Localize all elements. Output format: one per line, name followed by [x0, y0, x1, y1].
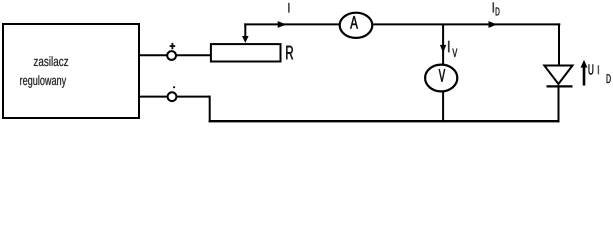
minus dot [173, 86, 175, 88]
wire: junction down to voltmeter [442, 24, 444, 64]
ammeter A [340, 13, 373, 38]
power supply box "zasilacz regulowany" [3, 24, 139, 118]
label U [589, 64, 594, 74]
wire: voltmeter to bottom rail [442, 92, 444, 122]
diode triangle [544, 66, 572, 85]
thin bar between U and D [598, 65, 599, 74]
wire: ammeter to top-right corner [373, 23, 560, 25]
resistor R (rheostat body) [211, 44, 281, 61]
current arrow I_D [489, 21, 498, 28]
wire: box to - terminal [139, 96, 211, 98]
voltmeter V [425, 65, 457, 92]
label R [286, 46, 293, 59]
terminal - (circle) [168, 92, 177, 101]
wiper arrowhead [242, 36, 249, 43]
label I of I_D [493, 2, 495, 12]
voltage arrow U_D [583, 63, 586, 86]
diode cathode bar [547, 85, 573, 87]
label D subscript of I_D [496, 7, 500, 15]
label V [439, 69, 445, 82]
arrow I_V [440, 45, 446, 53]
terminal + (circle) [167, 51, 176, 60]
wire: wiper to ammeter [244, 23, 339, 25]
text zasilacz [34, 56, 68, 66]
wire: diode to bottom rail [558, 85, 560, 122]
wire: top-right corner down to diode [558, 23, 560, 66]
wire: down from - terminal [209, 96, 211, 123]
label I (current into ammeter) [288, 3, 290, 13]
current arrow I [278, 21, 287, 28]
wire: bottom rail [209, 120, 560, 122]
plus sign [170, 43, 176, 49]
label I of I_V [448, 41, 450, 53]
label A [350, 16, 358, 29]
text regulowany [20, 75, 66, 88]
label D subscript of U_D [607, 74, 611, 83]
wire: box to + terminal to resistor R [139, 54, 211, 56]
wiper wire down to resistor [244, 23, 246, 37]
label V subscript of I_V [452, 49, 457, 57]
